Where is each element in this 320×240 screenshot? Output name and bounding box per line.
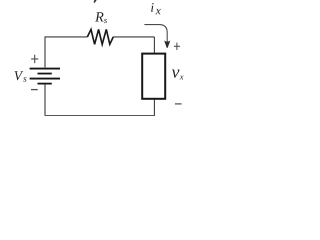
wire right vertical upper [153,37,155,54]
arrowhead ix [164,41,170,48]
wire left vertical lower [44,84,46,115]
label vx v [172,70,180,78]
resistor Rs zigzag [87,29,113,44]
plus sign battery [31,55,38,63]
minus sign battery [31,89,38,91]
label Vs V [15,71,24,80]
wire top-left horizontal [45,36,88,38]
plus sign box [174,43,180,50]
battery short plate upper [38,73,52,75]
label ix subscript x [156,9,161,14]
wire bottom horizontal [45,115,155,117]
element box vx [142,54,165,99]
wire top-right horizontal [113,36,154,38]
label Rs R [95,12,104,21]
battery long plate lower [30,78,60,80]
label Rs subscript s [104,19,107,23]
battery source Vs long plate top [30,68,60,70]
wire left vertical upper [44,36,46,67]
label Vs subscript s [23,77,26,82]
label ix i [151,3,154,12]
current arrow ix [144,25,167,43]
minus sign box [175,103,182,105]
wire right vertical lower [153,99,155,116]
label vx subscript x [180,76,184,80]
stray comma mark top [94,0,96,3]
battery short plate bottom [38,83,52,85]
